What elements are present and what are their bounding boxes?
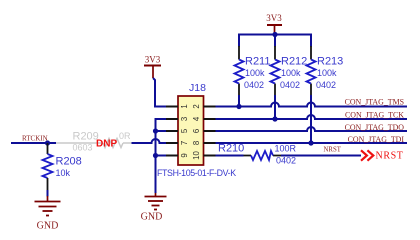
svg-text:10k: 10k <box>56 168 71 178</box>
resistor R211 <box>235 46 271 107</box>
junction: R211 / TMS <box>236 104 241 109</box>
svg-text:DNP: DNP <box>96 139 117 150</box>
svg-text:R211: R211 <box>245 56 270 68</box>
svg-text:6: 6 <box>192 129 201 133</box>
wire CON_JTAG_TMS row (hops at R212, R213 columns) <box>216 103 408 107</box>
svg-text:5: 5 <box>180 128 189 133</box>
pin numbers <box>180 104 201 160</box>
svg-text:CON_JTAG_TCK: CON_JTAG_TCK <box>345 111 404 120</box>
svg-text:R210: R210 <box>218 143 244 155</box>
svg-text:2: 2 <box>192 104 201 108</box>
wire: pin10 to R210 <box>216 155 244 157</box>
svg-text:0402: 0402 <box>280 80 300 90</box>
svg-text:J18: J18 <box>189 82 206 94</box>
svg-text:9: 9 <box>180 153 189 157</box>
port NRST (double chevron) <box>361 150 403 161</box>
wire: R209 to pin7 (hops gnd rail) <box>132 139 167 143</box>
svg-text:1: 1 <box>180 104 189 108</box>
svg-text:R209: R209 <box>73 130 99 142</box>
svg-text:CON_JTAG_TDO: CON_JTAG_TDO <box>345 123 405 132</box>
svg-text:7: 7 <box>180 141 189 145</box>
svg-text:0402: 0402 <box>316 80 336 90</box>
wire: GND vertical for pins 3,5,9 <box>156 119 167 193</box>
svg-text:CON_JTAG_TMS: CON_JTAG_TMS <box>345 98 404 107</box>
wire: R210 to NRST port <box>281 155 361 157</box>
svg-text:GND: GND <box>141 212 163 223</box>
resistor R210 <box>218 143 297 166</box>
svg-text:GND: GND <box>37 221 59 232</box>
svg-text:0603: 0603 <box>73 143 93 153</box>
svg-text:100R: 100R <box>275 144 297 154</box>
svg-text:R208: R208 <box>56 156 82 168</box>
svg-text:0402: 0402 <box>276 156 296 166</box>
wire CON_JTAG_TDO row (hop at R213 column) <box>216 127 408 131</box>
junction: bus / R212 stem <box>272 32 277 37</box>
svg-text:FTSH-105-01-F-DV-K: FTSH-105-01-F-DV-K <box>157 168 236 178</box>
svg-text:3V3: 3V3 <box>266 13 282 23</box>
svg-text:100k: 100k <box>317 68 337 78</box>
svg-text:NRST: NRST <box>324 147 342 154</box>
wire: 3V3 bus to resistor tops <box>239 35 311 47</box>
resistor R212 <box>271 46 308 119</box>
pin stubs right (2,4,6,8,10) <box>204 107 216 156</box>
svg-text:3V3: 3V3 <box>145 55 161 65</box>
svg-text:100k: 100k <box>281 68 301 78</box>
pin stubs left (1,3,5,7,9) <box>166 107 178 156</box>
resistor R209 (DNP, greyed) <box>56 130 132 152</box>
wire: left 3V3 to pin1 <box>153 78 166 107</box>
ground (under R208) <box>35 196 61 232</box>
svg-text:RTCKIN: RTCKIN <box>22 134 48 142</box>
junction: R213 / TDI <box>308 140 313 145</box>
svg-text:R213: R213 <box>317 56 343 68</box>
resistor R208 <box>43 143 82 197</box>
svg-text:3: 3 <box>180 117 189 121</box>
svg-text:0402: 0402 <box>244 80 264 90</box>
svg-text:0R: 0R <box>119 131 131 141</box>
power port 3V3 (top) <box>266 13 282 35</box>
svg-text:100k: 100k <box>245 68 265 78</box>
junction: pin5 / gnd rail <box>153 128 158 133</box>
svg-text:4: 4 <box>192 116 201 121</box>
svg-text:10: 10 <box>192 151 201 160</box>
wire RTCKIN <box>11 142 56 144</box>
junction: pin9 / gnd rail <box>153 153 158 158</box>
junction: R212 / TCK <box>272 116 277 121</box>
wire CON_JTAG_TDI row <box>216 142 408 144</box>
ground (under connector) <box>141 193 167 223</box>
svg-text:R212: R212 <box>281 56 307 68</box>
power port 3V3 (left) <box>144 55 161 79</box>
junction: RTCKIN / R208 <box>45 140 50 145</box>
svg-text:CON_JTAG_TDI: CON_JTAG_TDI <box>348 135 405 144</box>
wire CON_JTAG_TCK row (hop at R213 column) <box>216 115 408 119</box>
svg-text:NRST: NRST <box>376 151 404 162</box>
svg-text:8: 8 <box>192 141 201 145</box>
connector J18 <box>157 82 236 178</box>
resistor R213 <box>307 46 344 143</box>
